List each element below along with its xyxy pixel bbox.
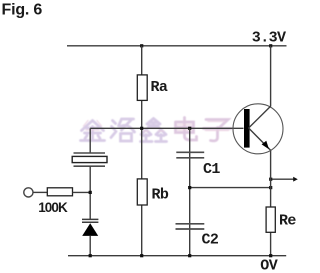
resistor Rb <box>137 179 147 205</box>
crystal X1 top plate <box>74 152 106 154</box>
svg-text:Rb: Rb <box>152 187 169 204</box>
node junction middle wire / C branch <box>188 186 191 189</box>
diode varactor D1 cathode bars <box>82 219 98 222</box>
arrow output head <box>293 177 298 182</box>
node junction input / crystal branch <box>89 191 92 194</box>
node junction output / emitter branch <box>269 178 272 181</box>
diode varactor D1 triangle <box>82 223 98 236</box>
wire collector vertical <box>270 46 272 107</box>
wire capacitor branch vertical <box>189 128 191 255</box>
transistor Q1 emitter arrow <box>262 141 269 150</box>
wire crystal branch vertical lower <box>89 236 91 256</box>
wire input right <box>73 191 91 193</box>
svg-text:C2: C2 <box>202 231 219 248</box>
resistor Re <box>266 207 275 232</box>
svg-text:Fig. 6: Fig. 6 <box>2 2 43 19</box>
node junction bottom / C2 <box>188 254 191 257</box>
wire crystal branch vertical upper <box>89 128 91 153</box>
wire input left <box>33 191 47 193</box>
resistor 100K body <box>47 188 72 196</box>
transistor Q1 base bar <box>244 109 250 148</box>
wire top 3.3V rail <box>67 45 287 47</box>
wire emitter vertical <box>270 150 272 256</box>
wire output with arrow <box>271 178 294 180</box>
capacitor C2 <box>176 224 205 229</box>
resistor Ra <box>137 75 147 101</box>
node junction bottom / Re <box>269 254 272 257</box>
capacitor C1 <box>176 152 204 158</box>
wire bottom 0V rail <box>68 255 286 257</box>
crystal X1 bottom plate <box>74 165 106 167</box>
wire crystal branch vertical mid <box>89 166 91 219</box>
node junction middle wire / emitter branch <box>269 186 272 189</box>
wire base horizontal <box>90 127 243 129</box>
node junction base wire / divider <box>140 127 143 130</box>
svg-text:100K: 100K <box>38 200 68 215</box>
node junction bottom / varactor <box>89 254 92 257</box>
crystal X1 body <box>72 156 107 162</box>
svg-text:3.3V: 3.3V <box>252 30 286 47</box>
node junction base wire / C branch <box>188 127 191 130</box>
transistor Q1 emitter stroke <box>249 128 271 150</box>
svg-text:OV: OV <box>260 257 277 273</box>
node junction top rail / collector <box>269 44 272 47</box>
node junction bottom / Rb <box>140 254 143 257</box>
transistor Q1 collector stroke <box>249 106 271 128</box>
node junction top rail / Ra <box>140 44 143 47</box>
svg-text:Ra: Ra <box>151 79 168 96</box>
transistor Q1 circle <box>233 104 283 154</box>
svg-text:Re: Re <box>279 213 296 230</box>
wire bias divider vertical (Ra-Rb) <box>141 46 143 256</box>
wire feedback middle horizontal <box>190 187 271 189</box>
svg-text:C1: C1 <box>203 161 220 178</box>
terminal input circle <box>24 188 33 197</box>
